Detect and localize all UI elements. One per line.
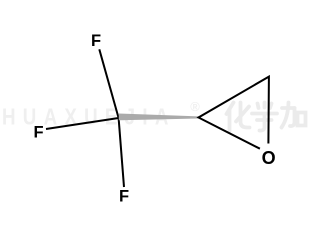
watermark hua character (227, 103, 250, 132)
hashed wedge bond C2 to CF3 (blurred gray) (119, 114, 199, 121)
bonds O-C2, C2-C3, C3-O of oxirane ring (199, 77, 269, 149)
watermark xue character (252, 103, 277, 131)
watermark jia character (282, 103, 306, 128)
svg-text:F: F (91, 32, 101, 50)
svg-text:O: O (262, 148, 276, 168)
svg-text:F: F (119, 187, 129, 205)
bond C-F left (46, 118, 119, 129)
watermark HUAXUEJIA (2, 105, 176, 130)
bond C-F bottom (119, 118, 124, 187)
bond C-F top (99, 49, 118, 118)
svg-text:®: ® (190, 99, 200, 114)
svg-text:F: F (33, 124, 43, 142)
